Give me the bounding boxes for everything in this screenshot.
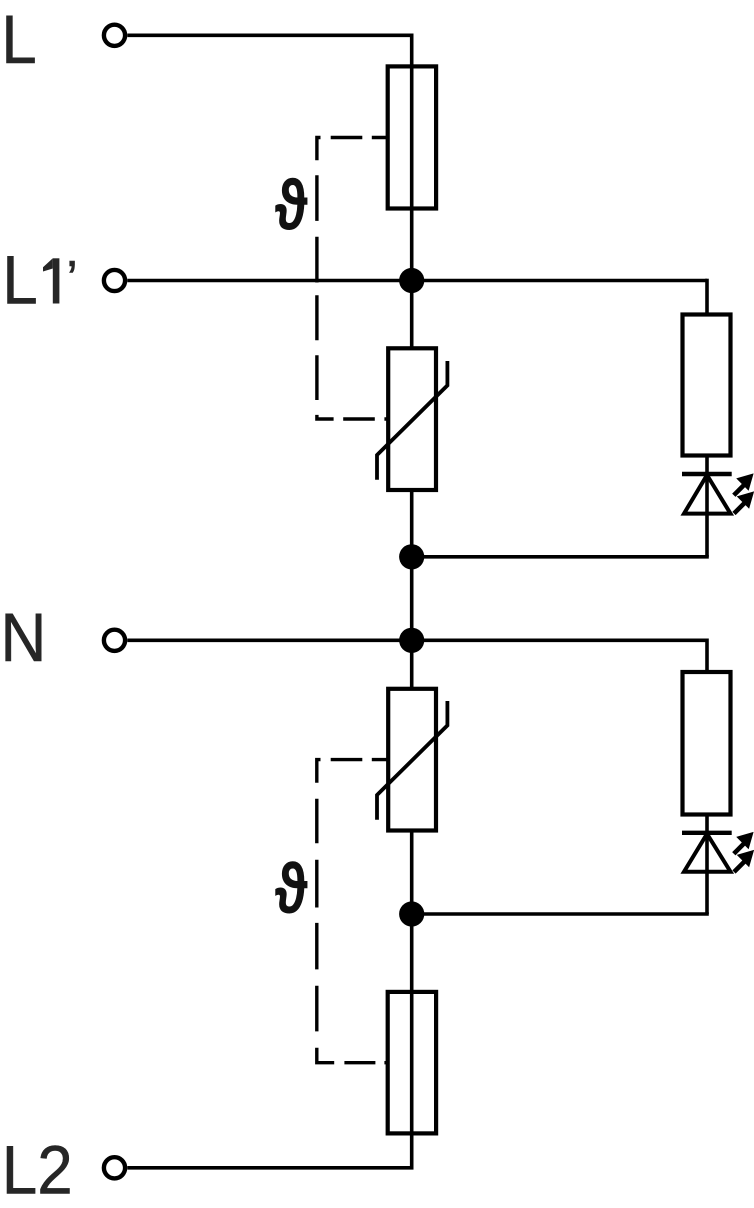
wire L1' row <box>127 279 707 283</box>
label L <box>1 2 36 79</box>
label N <box>0 600 46 677</box>
wire node B down to node C <box>410 557 414 641</box>
LED D1 arrow 1 <box>734 475 753 496</box>
wire L2 row <box>127 1166 413 1170</box>
wire resistor R2 to LED D2 <box>705 815 709 915</box>
varistor RV1 diagonal <box>377 361 447 480</box>
terminal N <box>104 630 125 651</box>
wire N row <box>127 638 707 642</box>
thermal disconnect dashed link 1 (fuse F1 to varistor RV1) <box>317 138 388 420</box>
fuse F1 <box>388 66 436 208</box>
label L1' (L glyph) <box>2 242 37 319</box>
wire varistor RV1 to node B <box>410 490 414 558</box>
node D <box>399 901 424 926</box>
terminal L <box>104 25 125 46</box>
wire node B to LED D1 branch <box>412 555 709 559</box>
label L2 <box>2 1132 73 1208</box>
wire L to main line <box>127 33 413 37</box>
label L1' (prime) <box>66 250 77 307</box>
varistor RV2 diagonal <box>377 701 447 820</box>
wire main vertical top segment (through fuse F1 down to varistor RV1) <box>410 34 414 349</box>
terminal L1' <box>104 270 125 291</box>
varistor RV2 body <box>388 689 436 831</box>
LED D1 cathode bar <box>682 472 732 476</box>
svg-text:’: ’ <box>66 250 77 307</box>
svg-text:ϑ: ϑ <box>275 166 309 246</box>
fuse F2 <box>388 992 436 1134</box>
LED D1 triangle <box>684 475 731 514</box>
terminal L2 <box>104 1157 125 1178</box>
resistor R1 <box>683 315 731 456</box>
LED D1 arrow 2 <box>734 493 753 514</box>
wire N row corner down to resistor R2 <box>705 639 709 673</box>
node C (N junction) <box>399 628 424 653</box>
node B <box>399 544 424 569</box>
wire node D to LED D2 branch <box>412 912 709 916</box>
svg-text:L: L <box>2 242 37 319</box>
svg-text:L: L <box>1 2 36 79</box>
thermal disconnect dashed link 2 (varistor RV2 to fuse F2) <box>317 760 388 1063</box>
LED D2 arrow 1 <box>734 833 753 854</box>
label L1' (digit 1 drawn sans foot) <box>43 258 59 303</box>
resistor R2 <box>683 672 731 815</box>
temperature symbol theta 2 <box>275 849 309 929</box>
varistor RV1 body <box>388 348 436 490</box>
temperature symbol theta 1 <box>275 166 309 246</box>
LED D2 triangle <box>684 834 731 872</box>
LED D2 cathode bar <box>682 831 732 835</box>
wire node C to varistor RV2 <box>410 640 414 689</box>
wire resistor R1 to LED D1 <box>705 456 709 557</box>
node A (L1' junction) <box>399 268 424 293</box>
wire varistor RV2 to node D <box>410 831 414 915</box>
svg-text:ϑ: ϑ <box>275 849 309 929</box>
svg-text:N: N <box>0 600 46 677</box>
wire node D down through fuse F2 to L2 row <box>410 914 414 1168</box>
svg-text:L2: L2 <box>2 1132 73 1208</box>
wire L1' row corner down to resistor R1 <box>705 279 709 315</box>
LED D2 arrow 2 <box>734 851 753 872</box>
